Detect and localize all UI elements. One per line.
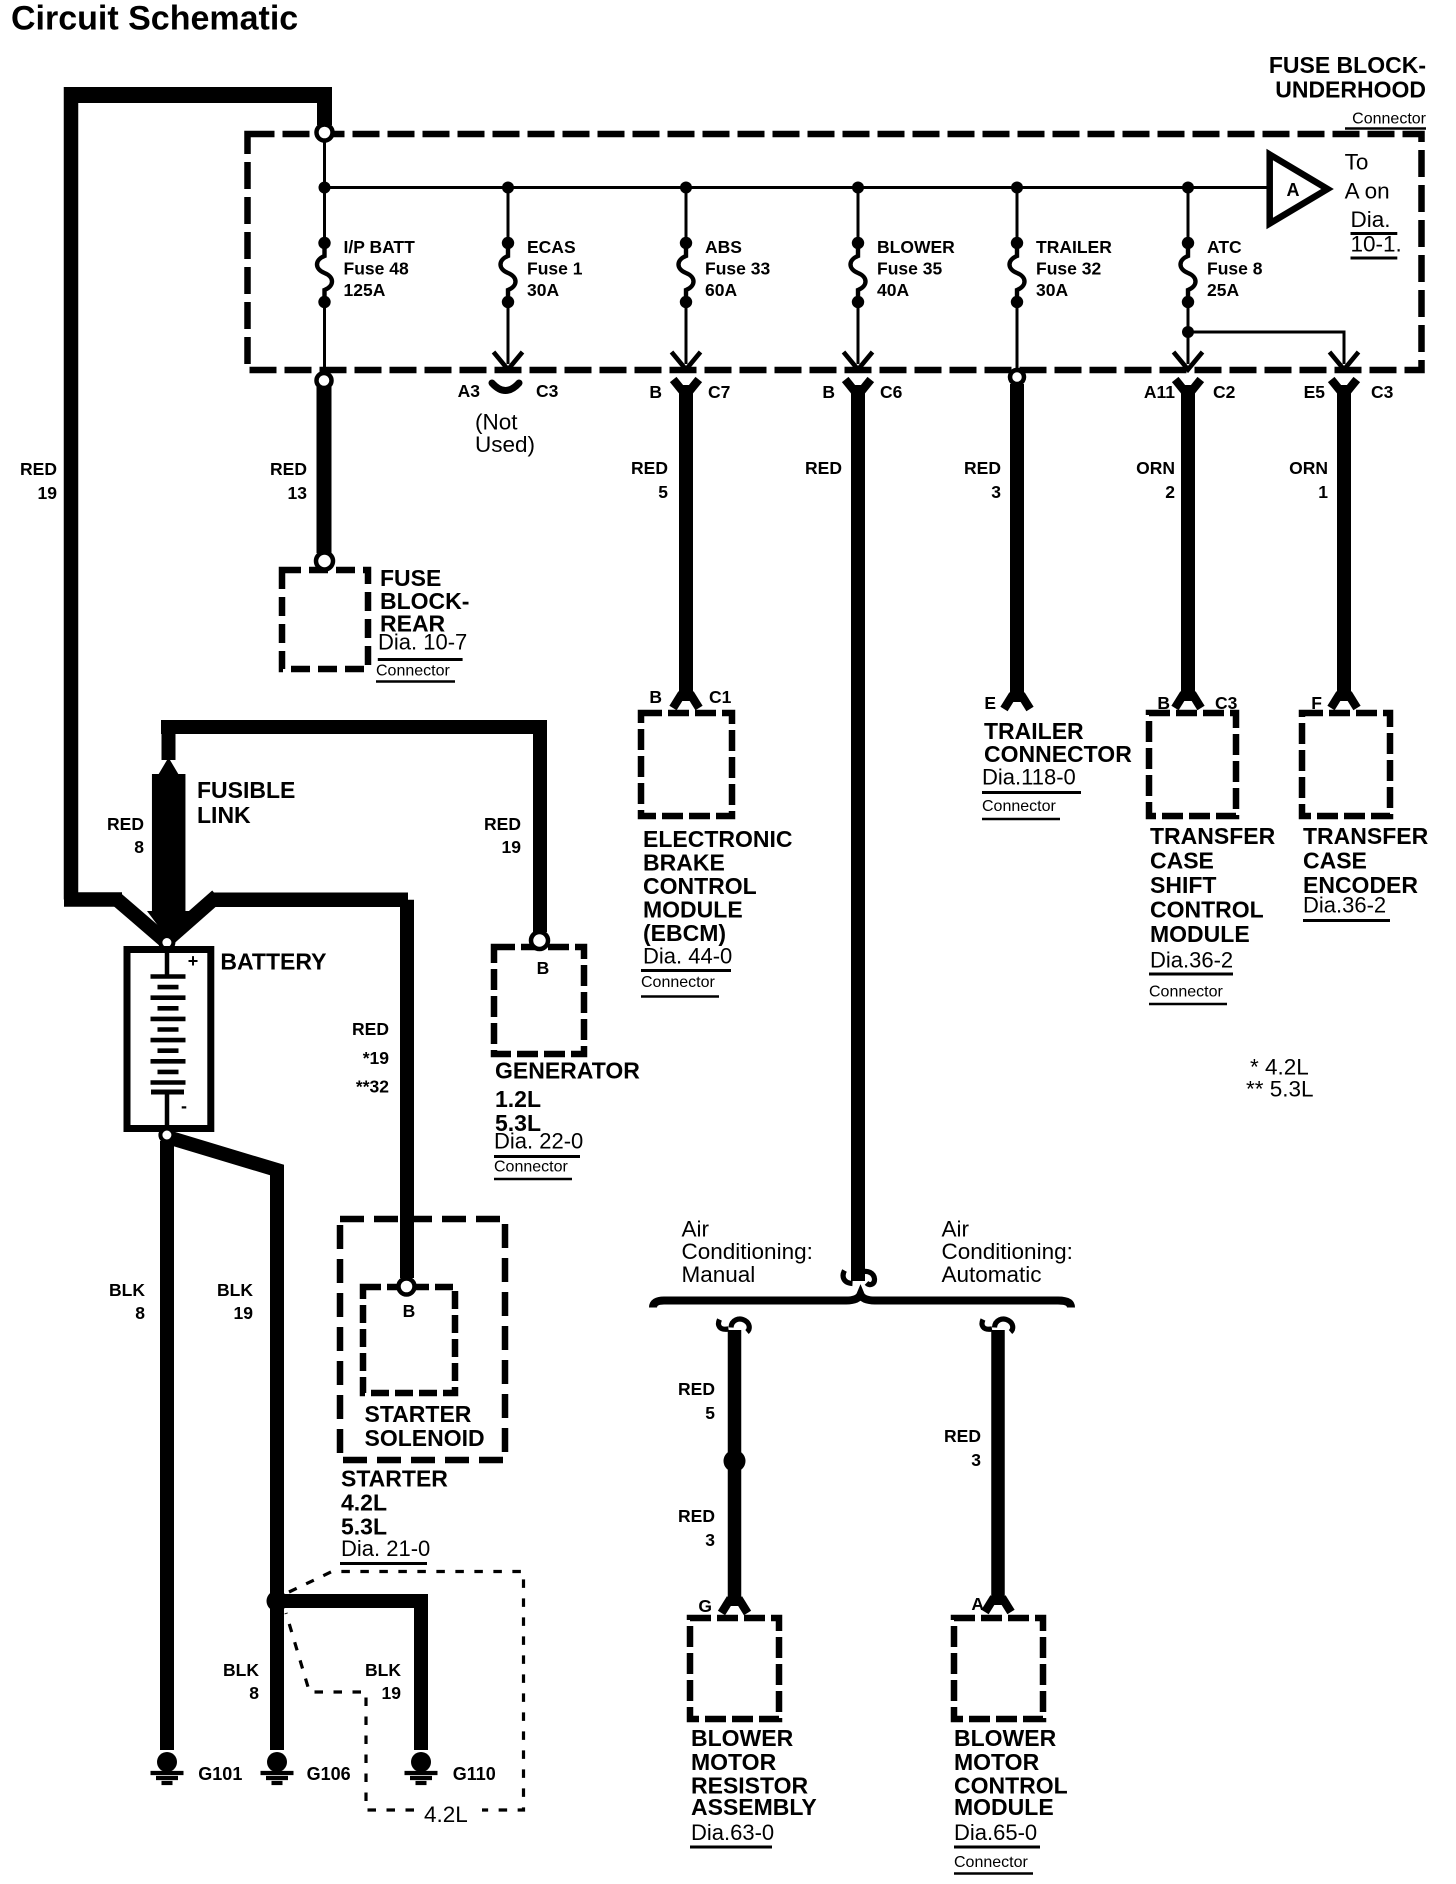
svg-text:Connector: Connector [494, 1159, 568, 1176]
wire RED 13 [317, 387, 332, 553]
svg-text:To: To [1345, 150, 1369, 175]
wire ECAS fuse to arrow [507, 302, 510, 364]
fuse I/P BATT Fuse 48 125A [319, 182, 331, 194]
svg-text:** 5.3L: ** 5.3L [1246, 1077, 1314, 1102]
svg-text:Fuse 48: Fuse 48 [344, 259, 409, 279]
wire BLK 19 to G110 [277, 1601, 421, 1750]
svg-text:1.2L: 1.2L [495, 1086, 541, 1112]
svg-text:(EBCM): (EBCM) [643, 920, 726, 946]
battery plates [151, 974, 186, 979]
svg-text:Fuse 8: Fuse 8 [1207, 259, 1263, 279]
diagonal into battery positive from right [167, 896, 217, 940]
svg-text:C1: C1 [709, 687, 732, 707]
svg-text:RED: RED [631, 458, 668, 478]
svg-text:4.2L: 4.2L [341, 1490, 387, 1516]
wire RED *19 **32 down to starter solenoid [400, 900, 414, 1278]
svg-text:STARTER: STARTER [341, 1465, 448, 1491]
svg-text:+: + [188, 951, 199, 971]
open circle battery negative [160, 1129, 173, 1142]
junction splice dot [267, 1591, 288, 1612]
EBCM dashed box [641, 713, 732, 816]
arrow into E5 [1330, 352, 1359, 370]
svg-text:-: - [181, 1096, 187, 1116]
svg-text:Air: Air [682, 1217, 710, 1242]
svg-text:I/P BATT: I/P BATT [344, 237, 416, 257]
svg-text:RED: RED [107, 814, 144, 834]
fuse BLOWER Fuse 35 40A [852, 182, 864, 194]
svg-text:Fuse 35: Fuse 35 [877, 259, 942, 279]
dotted 4.2L option outline [289, 1572, 524, 1811]
svg-text:40A: 40A [877, 280, 909, 300]
open circle connector TRAILER at border [1010, 370, 1024, 384]
wire RED 19 bottom shelf [64, 892, 122, 907]
svg-text:BLK: BLK [109, 1280, 145, 1300]
svg-text:ATC: ATC [1207, 237, 1242, 257]
wire ORN 1 [1331, 380, 1357, 392]
svg-text:13: 13 [288, 483, 308, 503]
wire ATC to arrow A11 [1187, 332, 1190, 364]
svg-text:UNDERHOOD: UNDERHOOD [1275, 76, 1426, 102]
svg-text:Connector: Connector [641, 974, 715, 991]
svg-text:A: A [1287, 180, 1300, 200]
svg-text:G110: G110 [453, 1764, 496, 1784]
battery internal stem top [165, 952, 170, 976]
svg-text:Connector: Connector [376, 663, 450, 680]
wire RED 3 automatic branch [982, 1319, 1013, 1332]
svg-text:STARTER: STARTER [365, 1401, 472, 1427]
wire I/P BATT fuse to connector [323, 302, 326, 374]
svg-text:4.2L: 4.2L [424, 1802, 468, 1827]
svg-text:19: 19 [502, 837, 522, 857]
svg-text:Dia. 10-7: Dia. 10-7 [378, 630, 467, 655]
fuse block underhood dashed box [248, 134, 1422, 370]
ground G101 [151, 1752, 184, 1783]
wire RED 19 left vertical [64, 87, 79, 900]
svg-text:SOLENOID: SOLENOID [365, 1425, 485, 1451]
blower motor control module dashed box [954, 1618, 1043, 1719]
svg-text:A: A [971, 1594, 984, 1614]
svg-text:25A: 25A [1207, 280, 1239, 300]
svg-text:(Not: (Not [475, 410, 518, 435]
svg-text:LINK: LINK [197, 802, 251, 828]
svg-text:CONTROL: CONTROL [1150, 896, 1264, 922]
svg-text:Dia.: Dia. [1351, 207, 1391, 232]
fuse ECAS Fuse 1 30A [502, 182, 514, 194]
ground G110 [405, 1752, 438, 1783]
fusible link symbol [158, 758, 180, 777]
svg-text:ORN: ORN [1289, 458, 1328, 478]
wire BLK 19 diagonal from battery [169, 1138, 277, 1599]
svg-text:Connector: Connector [982, 798, 1056, 815]
svg-text:MODULE: MODULE [643, 897, 743, 923]
svg-text:Fuse 32: Fuse 32 [1036, 259, 1101, 279]
svg-text:RED: RED [678, 1379, 715, 1399]
svg-text:ELECTRONIC: ELECTRONIC [643, 826, 793, 852]
blower motor resistor dashed box [690, 1618, 779, 1719]
svg-text:E5: E5 [1304, 382, 1326, 402]
svg-text:A11: A11 [1144, 382, 1175, 402]
fuse ABS Fuse 33 60A [680, 182, 692, 194]
fuse TRAILER Fuse 32 30A [1011, 182, 1023, 194]
svg-text:Manual: Manual [682, 1262, 756, 1287]
svg-text:B: B [403, 1301, 416, 1321]
svg-text:3: 3 [991, 482, 1001, 502]
svg-text:Connector: Connector [1352, 111, 1426, 128]
svg-text:Fuse 1: Fuse 1 [527, 259, 583, 279]
svg-text:CASE: CASE [1150, 847, 1214, 873]
svg-text:Dia.36-2: Dia.36-2 [1150, 948, 1233, 973]
bus wire inside fuse block [325, 186, 1270, 189]
svg-text:5: 5 [658, 482, 668, 502]
svg-text:C6: C6 [880, 382, 903, 402]
svg-text:Connector: Connector [954, 1854, 1028, 1871]
svg-text:BATTERY: BATTERY [220, 948, 326, 974]
svg-text:TRAILER: TRAILER [1036, 237, 1112, 257]
wire RED 5 manual branch [719, 1319, 750, 1332]
transfer case shift control module dashed box [1149, 713, 1236, 816]
svg-text:BLK: BLK [365, 1660, 401, 1680]
generator dashed box [494, 947, 584, 1054]
open circle at starter solenoid [399, 1279, 415, 1295]
svg-text:Conditioning:: Conditioning: [682, 1239, 813, 1264]
open circle at generator [531, 932, 548, 949]
svg-text:RED: RED [270, 459, 307, 479]
svg-text:RED: RED [352, 1019, 389, 1039]
svg-text:ASSEMBLY: ASSEMBLY [691, 1794, 817, 1820]
wire RED 3 (trailer) [1010, 384, 1024, 702]
svg-text:Dia.118-0: Dia.118-0 [982, 765, 1076, 790]
wire BLOWER fuse to arrow [857, 302, 860, 364]
svg-text:BLOWER: BLOWER [691, 1725, 794, 1751]
svg-text:C3: C3 [536, 381, 559, 401]
svg-text:MODULE: MODULE [954, 1794, 1054, 1820]
svg-text:C2: C2 [1213, 382, 1236, 402]
svg-text:Connector: Connector [1149, 984, 1223, 1001]
off-page connector triangle A [1270, 155, 1328, 224]
svg-text:RED: RED [20, 459, 57, 479]
svg-text:60A: 60A [705, 280, 737, 300]
svg-text:RED: RED [964, 458, 1001, 478]
wire RED 5 (ABS to EBCM) [673, 380, 699, 392]
svg-text:30A: 30A [527, 280, 559, 300]
svg-text:8: 8 [135, 1303, 145, 1323]
svg-text:ORN: ORN [1136, 458, 1175, 478]
svg-text:**32: **32 [356, 1077, 389, 1097]
junction node ATC branch [1182, 326, 1194, 338]
svg-text:SHIFT: SHIFT [1150, 872, 1216, 898]
svg-text:BRAKE: BRAKE [643, 850, 725, 876]
svg-text:Dia. 21-0: Dia. 21-0 [341, 1536, 430, 1561]
wire RED 19 battery feed, top horizontal [64, 87, 332, 103]
open circle connector at fuse block top [317, 125, 333, 141]
svg-text:CONTROL: CONTROL [643, 873, 757, 899]
svg-text:8: 8 [134, 837, 144, 857]
svg-text:BLOWER: BLOWER [954, 1725, 1057, 1751]
svg-text:Dia.65-0: Dia.65-0 [954, 1820, 1037, 1845]
brace for air conditioning options [653, 1295, 1071, 1308]
wire TRAILER fuse to connector [1016, 302, 1019, 370]
svg-text:CASE: CASE [1303, 847, 1367, 873]
svg-text:B: B [822, 382, 835, 402]
svg-text:GENERATOR: GENERATOR [495, 1057, 640, 1083]
starter outer dashed box [340, 1219, 505, 1460]
wire ABS fuse to arrow [685, 302, 688, 364]
svg-text:TRANSFER: TRANSFER [1150, 823, 1276, 849]
svg-text:8: 8 [249, 1683, 259, 1703]
svg-text:BLK: BLK [217, 1280, 253, 1300]
transfer case encoder dashed box [1302, 713, 1390, 816]
wire RED (blower feed) [845, 380, 871, 392]
svg-text:FUSE BLOCK-: FUSE BLOCK- [1269, 52, 1426, 78]
svg-text:G106: G106 [307, 1764, 351, 1784]
svg-text:10-1.: 10-1. [1351, 232, 1402, 257]
fuse block rear dashed box [282, 570, 368, 669]
svg-text:BLOWER: BLOWER [877, 237, 955, 257]
wire battery feed, right stub down to fuse block [317, 95, 332, 125]
svg-text:G101: G101 [198, 1764, 242, 1784]
splice junction dot [724, 1450, 746, 1472]
svg-text:Circuit Schematic: Circuit Schematic [11, 0, 298, 38]
svg-text:A3: A3 [458, 381, 481, 401]
svg-text:B: B [537, 958, 550, 978]
svg-text:FUSIBLE: FUSIBLE [197, 777, 295, 803]
battery box [127, 950, 211, 1129]
svg-text:C3: C3 [1371, 382, 1394, 402]
ground G106 [261, 1752, 294, 1783]
svg-text:2: 2 [1165, 482, 1175, 502]
svg-text:Dia.36-2: Dia.36-2 [1303, 893, 1386, 918]
svg-text:19: 19 [382, 1683, 402, 1703]
wire ATC branch to E5 [1188, 332, 1344, 364]
svg-text:5: 5 [705, 1403, 715, 1423]
svg-text:3: 3 [971, 1450, 981, 1470]
svg-text:Air: Air [942, 1217, 970, 1242]
svg-text:Used): Used) [475, 432, 535, 457]
svg-text:C7: C7 [708, 382, 730, 402]
battery bottom T plate [151, 1090, 184, 1095]
svg-text:ABS: ABS [705, 237, 742, 257]
wire stub from circle to bus [323, 139, 326, 188]
wire RED 19 diagonal into battery positive [117, 900, 164, 941]
svg-text:A on: A on [1345, 179, 1390, 204]
wire battery positive to starter feed [214, 892, 408, 907]
svg-text:B: B [649, 687, 662, 707]
svg-text:125A: 125A [344, 280, 386, 300]
svg-text:TRANSFER: TRANSFER [1303, 823, 1429, 849]
svg-text:19: 19 [38, 483, 58, 503]
wire ATC fuse to junction [1187, 302, 1190, 332]
wire BLK 8 to G101 [160, 1141, 174, 1750]
svg-text:MOTOR: MOTOR [691, 1749, 777, 1775]
svg-text:Automatic: Automatic [942, 1262, 1042, 1287]
open circle at fuse block rear [316, 553, 333, 570]
svg-text:1: 1 [1318, 482, 1328, 502]
svg-text:Dia. 44-0: Dia. 44-0 [643, 944, 732, 969]
svg-text:30A: 30A [1036, 280, 1068, 300]
wire RED 19 down to generator [533, 727, 547, 932]
svg-text:Fuse 33: Fuse 33 [705, 259, 770, 279]
svg-text:19: 19 [234, 1303, 254, 1323]
svg-text:BLK: BLK [223, 1660, 259, 1680]
svg-text:CONNECTOR: CONNECTOR [984, 741, 1132, 767]
svg-text:B: B [649, 382, 662, 402]
fusible link stub [162, 727, 176, 760]
open circle connector I/P BATT at border [317, 373, 332, 388]
svg-text:MOTOR: MOTOR [954, 1749, 1040, 1775]
svg-text:RED: RED [678, 1506, 715, 1526]
wire fusible link top horizontal [161, 720, 547, 734]
svg-text:Dia.63-0: Dia.63-0 [691, 1820, 774, 1845]
svg-text:RED: RED [805, 458, 842, 478]
svg-text:3: 3 [705, 1530, 715, 1550]
starter solenoid inner dashed box [363, 1287, 455, 1393]
svg-text:MODULE: MODULE [1150, 921, 1250, 947]
svg-text:*19: *19 [363, 1048, 390, 1068]
wire BLK 8 to G106 [270, 1601, 284, 1750]
fuse ATC Fuse 8 25A [1182, 182, 1194, 194]
svg-text:ECAS: ECAS [527, 237, 576, 257]
wire end curl (splice to options) [843, 1271, 874, 1285]
open circle battery positive [160, 936, 173, 949]
wire ORN 2 [1175, 380, 1201, 392]
svg-text:G: G [698, 1596, 712, 1616]
svg-text:RED: RED [484, 814, 521, 834]
svg-text:Dia. 22-0: Dia. 22-0 [494, 1129, 583, 1154]
svg-text:RED: RED [944, 1426, 981, 1446]
svg-text:E: E [984, 693, 996, 713]
svg-text:Conditioning:: Conditioning: [942, 1239, 1073, 1264]
